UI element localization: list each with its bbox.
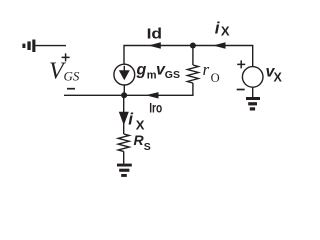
- svg-text:X: X: [221, 24, 230, 39]
- resistor RS: [118, 134, 129, 151]
- svg-text:Id: Id: [147, 26, 163, 43]
- wire current-source bottom: [123, 85, 125, 95]
- svg-text:O: O: [211, 71, 220, 85]
- resistor rO: [187, 65, 198, 83]
- junction dot (source node): [121, 92, 127, 98]
- wire top rail (drain node) with vX stub: [124, 46, 253, 67]
- svg-text:GS: GS: [165, 69, 180, 81]
- wire rO branch bottom: [192, 83, 194, 95]
- svg-text:S: S: [144, 141, 151, 153]
- wire rO branch top: [192, 46, 194, 66]
- svg-text:X: X: [274, 71, 283, 85]
- svg-text:i: i: [128, 110, 134, 129]
- arrow Id (left): [148, 42, 161, 48]
- current source arrow (down): [119, 66, 130, 80]
- ground (gate, rotated left): [22, 40, 35, 53]
- junction dot (drain node, rO top): [190, 43, 196, 49]
- voltage source vX circle: [242, 67, 263, 88]
- label - (VGS): [67, 88, 75, 90]
- svg-text:GS: GS: [64, 68, 80, 83]
- wire RS branch lower: [123, 151, 125, 163]
- label + (vX): [237, 60, 245, 68]
- label - (vX): [237, 89, 245, 91]
- svg-text:r: r: [203, 60, 210, 79]
- wire gate: [35, 45, 66, 47]
- label + (VGS): [62, 53, 70, 61]
- arrow iX top (left): [213, 42, 226, 48]
- svg-text:i: i: [215, 18, 221, 37]
- wire RS branch upper: [123, 95, 125, 134]
- ground (below vX): [246, 97, 260, 111]
- ground (below RS): [117, 164, 132, 177]
- svg-text:g: g: [136, 61, 147, 78]
- wire middle rail (source node): [64, 94, 194, 96]
- arrow iX down (RS branch): [119, 112, 129, 126]
- svg-text:Iro: Iro: [149, 100, 162, 115]
- svg-text:X: X: [136, 118, 145, 133]
- arrow Iro (left): [146, 92, 159, 98]
- current source U1 circle: [114, 64, 135, 85]
- wire vX to ground: [252, 87, 254, 97]
